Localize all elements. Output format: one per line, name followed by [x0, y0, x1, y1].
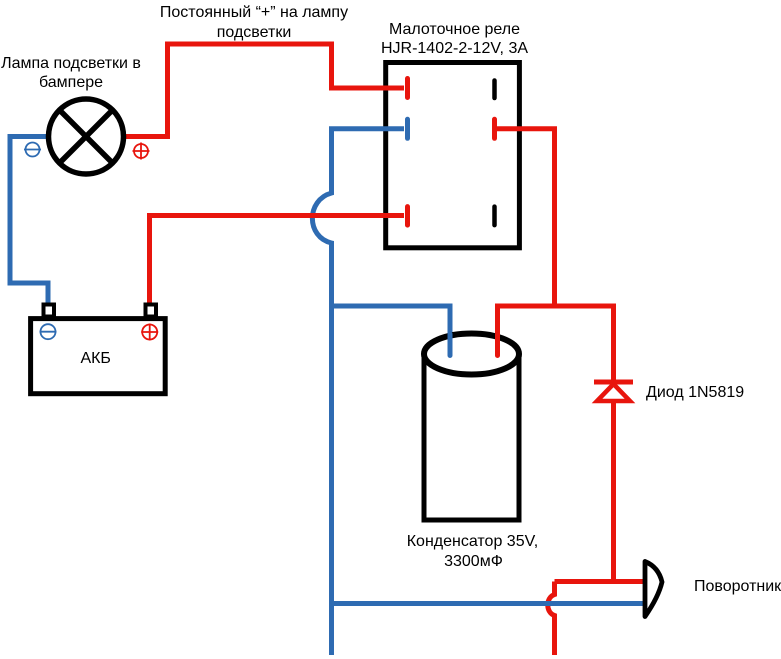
relay K1 pin 6 bar (bottom-right, black) [492, 207, 497, 226]
lamp L1 cross X [60, 111, 112, 163]
svg-text:Постоянный “+” на лампу: Постоянный “+” на лампу [160, 4, 348, 21]
relay K1 pin 1 bar (top-left, red) [405, 79, 410, 98]
wire red: down with hop over blue wire to bottom [548, 582, 555, 656]
wire red: relay pin 5 right then down to junction node [496, 129, 555, 306]
wire blue: relay pin 2 left then down, hop over red wire, down to bottom [312, 129, 404, 655]
svg-text:Лампа подсветки в: Лампа подсветки в [1, 55, 141, 72]
wire red: junction left to capacitor positive terminal [498, 306, 555, 352]
capacitor terminal wire tips over ellipse [448, 334, 453, 356]
diode VD1 triangle [597, 384, 630, 401]
lamp L1 bumper backlight circle [49, 99, 124, 174]
capacitor C1 body cylinder [424, 334, 519, 521]
battery negative terminal post [44, 305, 55, 317]
wire red: lamp plus up and over to relay pin 1 [122, 44, 404, 137]
relay K1 pin 2 bar (middle-left, blue) [405, 119, 410, 138]
svg-text:подсветки: подсветки [217, 24, 292, 41]
battery minus symbol [40, 324, 57, 339]
lamp minus terminal symbol [24, 143, 41, 157]
relay K1 pin 3 bar (bottom-left, red) [405, 207, 410, 226]
svg-text:Малоточное реле: Малоточное реле [389, 21, 520, 38]
wire blue: lamp minus down-left to battery minus terminal [10, 137, 52, 306]
wire red: junction right and down through diode position [555, 306, 614, 582]
svg-text:Поворотник: Поворотник [694, 578, 781, 595]
svg-text:Диод 1N5819: Диод 1N5819 [646, 384, 744, 401]
relay K1 pin 4 bar (top-right, black) [492, 81, 497, 99]
wire red: battery plus up to relay pin 3 [150, 216, 405, 306]
lamp plus terminal symbol [133, 143, 150, 160]
relay K1 body [386, 63, 520, 248]
svg-text:Конденсатор 35V,: Конденсатор 35V, [407, 533, 539, 550]
wire red: horizontal to turn signal lamp [555, 579, 644, 584]
battery positive terminal post [146, 305, 157, 317]
svg-text:бампере: бампере [39, 74, 103, 91]
svg-text:HJR-1402-2-12V, 3А: HJR-1402-2-12V, 3А [381, 40, 528, 57]
battery plus symbol [141, 324, 158, 341]
relay K1 pin 5 bar (middle-right, red) [492, 119, 497, 138]
svg-text:АКБ: АКБ [80, 350, 111, 367]
svg-text:3300мФ: 3300мФ [444, 553, 503, 570]
wire blue: bottom run to turn signal lamp [332, 601, 644, 606]
diode VD1 1N5819 cathode bar [594, 380, 633, 385]
turn signal lamp symbol [645, 562, 662, 617]
battery GB1 body [31, 319, 166, 394]
wire blue: junction to capacitor negative terminal [332, 306, 451, 352]
